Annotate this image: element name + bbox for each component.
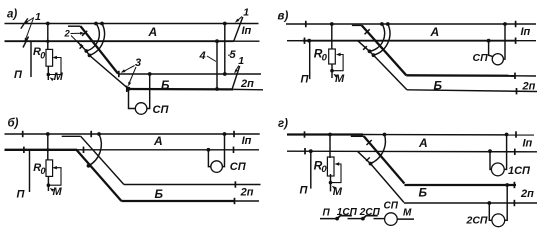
node arc top bbox=[97, 132, 101, 136]
rail A top bbox=[5, 133, 260, 135]
node feed crossing bbox=[46, 40, 49, 43]
svg-text:П: П bbox=[17, 189, 26, 201]
label Ip bbox=[242, 25, 252, 37]
wire 2SP right lead bbox=[504, 185, 507, 220]
label SP bbox=[473, 52, 489, 64]
wire to M bbox=[397, 218, 414, 220]
node feed crossing bbox=[46, 148, 49, 151]
turnout curve arc inner bbox=[86, 24, 99, 52]
rail A bottom thin continuation bbox=[234, 40, 260, 42]
svg-text:2п: 2п bbox=[520, 188, 534, 200]
svg-text:а): а) bbox=[7, 9, 17, 21]
branch rail thin diagonal bbox=[77, 41, 128, 88]
svg-text:2п: 2п bbox=[240, 187, 254, 199]
insulated joint 1 left bottom slash bbox=[23, 37, 29, 48]
node jumper4 bottom bbox=[215, 87, 219, 91]
rail B top thick bbox=[406, 74, 515, 77]
label A bbox=[430, 25, 440, 39]
label B bbox=[419, 186, 428, 200]
node arc top bbox=[383, 133, 387, 137]
insulated joint upper slash bbox=[367, 140, 372, 145]
node SP left on A bottom bbox=[487, 39, 491, 43]
branch rail thin diagonal bbox=[357, 151, 404, 202]
switch point rail bbox=[62, 135, 81, 137]
label 2p bbox=[522, 81, 536, 93]
insulated joint 1 left top slash bbox=[21, 18, 28, 28]
node at B bottom bend bbox=[127, 87, 131, 91]
svg-text:А: А bbox=[153, 134, 163, 148]
rheostat tap arrow hook bbox=[49, 168, 61, 186]
label B bbox=[155, 187, 164, 201]
rail A top bbox=[5, 23, 259, 25]
svg-text:2СП: 2СП bbox=[359, 207, 381, 218]
branch rail thin diagonal bbox=[81, 136, 124, 184]
joint tick B bottom right bbox=[516, 88, 518, 94]
svg-text:2: 2 bbox=[64, 29, 71, 40]
node jumper4 top bbox=[215, 39, 219, 43]
svg-text:в): в) bbox=[278, 11, 289, 23]
label M bbox=[53, 186, 63, 198]
svg-text:0: 0 bbox=[40, 50, 45, 60]
node jumper5 bottom bbox=[223, 72, 227, 76]
switch point rail bbox=[352, 24, 362, 26]
wire P lead bbox=[310, 151, 312, 188]
node jumper5 top bbox=[223, 22, 227, 26]
joint tick B top right bbox=[234, 181, 236, 187]
joint tick B top right end bbox=[514, 73, 516, 79]
node arc top 1 bbox=[380, 22, 384, 26]
svg-text:П: П bbox=[14, 69, 23, 81]
svg-text:А: А bbox=[418, 136, 428, 150]
rheostat tap arrow hook bbox=[331, 164, 341, 183]
switch point rail bbox=[68, 25, 81, 27]
node contact 1SP bbox=[335, 217, 339, 221]
wire feed bbox=[329, 135, 331, 159]
joint tick bottom left bbox=[304, 148, 306, 154]
node arc top 2 bbox=[386, 22, 390, 26]
node 2SP right on B top bbox=[505, 183, 509, 187]
branch rail thick diagonal bbox=[81, 26, 119, 73]
wire SP right lead bbox=[222, 134, 224, 167]
leader 4 bbox=[207, 56, 216, 62]
label 2p bbox=[520, 188, 534, 200]
switch point rail bbox=[351, 135, 364, 137]
insulated joint 3 tick at B top bend bbox=[118, 71, 120, 77]
label B bbox=[434, 79, 443, 93]
joint tick A bottom right end bbox=[514, 149, 516, 155]
insulated joint 3 tick at B bottom bend bbox=[126, 86, 128, 92]
node 2SP left on B bottom bbox=[487, 201, 491, 205]
wire SP left lead bbox=[489, 41, 494, 57]
label P bbox=[17, 189, 26, 201]
relay SP circle bbox=[492, 54, 503, 65]
svg-text:0: 0 bbox=[321, 164, 327, 175]
rail A bottom thick segment bbox=[5, 149, 78, 151]
svg-text:А: А bbox=[430, 25, 440, 39]
relay SP circle bbox=[211, 161, 223, 173]
svg-text:2СП: 2СП bbox=[466, 215, 488, 227]
label a) bbox=[7, 9, 17, 21]
label 2p bbox=[240, 187, 254, 199]
insulated joint tick on A top before arc bbox=[90, 131, 92, 137]
resistor R0 bbox=[327, 157, 334, 176]
rail A top thick segment bbox=[287, 133, 363, 135]
rail B top thin continuation bbox=[515, 75, 536, 77]
wire 1SP left lead bbox=[490, 151, 492, 169]
relay SP circle bbox=[135, 103, 147, 115]
rail A top thin segment bbox=[362, 134, 534, 136]
joint tick on A bottom after bend bbox=[83, 147, 85, 153]
rail B top bbox=[118, 73, 261, 75]
label 2p bbox=[240, 78, 254, 90]
label 4 bbox=[199, 50, 206, 62]
label P bbox=[14, 69, 23, 81]
wire to relay coil bbox=[374, 218, 385, 220]
node arc top 1 bbox=[94, 22, 98, 26]
jumper wire 5 bbox=[224, 24, 226, 75]
label M bbox=[54, 71, 64, 83]
svg-text:П: П bbox=[323, 207, 331, 218]
rail B bottom thick bbox=[121, 200, 234, 202]
joint tick bottom left bbox=[23, 147, 25, 153]
joint tick bottom left bbox=[304, 38, 306, 44]
label 1 right A bbox=[243, 7, 249, 19]
turnout curve arc outer bbox=[374, 24, 390, 55]
svg-text:М: М bbox=[53, 186, 63, 198]
svg-text:г): г) bbox=[278, 118, 288, 130]
node arc bottom 1 bbox=[84, 49, 88, 53]
svg-text:1СП: 1СП bbox=[337, 207, 358, 218]
turnout curve arc bbox=[371, 135, 386, 164]
svg-text:Iп: Iп bbox=[521, 26, 531, 38]
label P bbox=[300, 185, 309, 197]
rail A bottom bbox=[287, 150, 537, 153]
label Ip bbox=[521, 26, 531, 38]
label 2SP bbox=[466, 215, 488, 227]
wire relay SP right lead bbox=[147, 74, 150, 109]
label A bbox=[153, 134, 163, 148]
node P on A bottom bbox=[307, 39, 311, 43]
svg-text:4: 4 bbox=[199, 50, 206, 62]
rail B top thick bbox=[404, 184, 516, 186]
resistor R0 bbox=[46, 49, 53, 66]
svg-text:Б: Б bbox=[434, 79, 443, 93]
node 1SP right on A top bbox=[505, 133, 509, 137]
rail A bottom thin segment bbox=[516, 40, 536, 42]
svg-text:2п: 2п bbox=[522, 81, 536, 93]
wire below R0 bbox=[330, 174, 332, 191]
svg-text:0: 0 bbox=[41, 166, 46, 176]
joint tick A top right bbox=[515, 131, 517, 137]
leader 5 bbox=[228, 54, 231, 56]
wire P lead bbox=[309, 41, 311, 79]
rail B bottom thick bbox=[128, 88, 233, 91]
rail B bottom bbox=[407, 90, 537, 92]
insulated joint 2 upper slash bbox=[82, 31, 87, 36]
branch rail thick diagonal bbox=[362, 25, 407, 75]
rail A bottom bbox=[5, 40, 234, 42]
wire below R0 bbox=[47, 176, 49, 191]
rheostat tap arrow hook bbox=[48, 58, 61, 75]
svg-text:Б: Б bbox=[161, 78, 170, 92]
svg-text:б): б) bbox=[8, 118, 19, 130]
label 1SP bbox=[508, 165, 531, 177]
node arc top 2 bbox=[100, 22, 104, 26]
joint tick top left bbox=[304, 131, 306, 137]
svg-text:П: П bbox=[300, 185, 309, 197]
label P terminal bbox=[323, 207, 331, 218]
leader 3 to bottom joint bbox=[129, 67, 136, 84]
wire relay SP left lead bbox=[129, 89, 136, 109]
label Ip bbox=[242, 135, 252, 147]
joint tick A bottom right end bbox=[515, 38, 517, 44]
joint tick B top right end bbox=[513, 182, 515, 188]
label SP bbox=[230, 161, 247, 173]
node M junction bbox=[47, 183, 51, 187]
svg-text:СП: СП bbox=[473, 52, 489, 64]
leader to joint bbox=[238, 17, 243, 21]
wire 1SP right lead bbox=[504, 135, 507, 170]
node on B top rail bbox=[148, 72, 152, 76]
joint tick B bottom right end bbox=[234, 198, 236, 204]
svg-text:СП: СП bbox=[384, 201, 399, 212]
label 1SP contact bbox=[337, 207, 358, 218]
resistor R0 bbox=[329, 49, 336, 64]
node arc bottom 2 bbox=[88, 54, 92, 58]
relay 2SP circle bbox=[492, 214, 505, 227]
label M bbox=[333, 186, 343, 198]
rail B bottom thin continuation bbox=[235, 200, 260, 202]
rail B bottom bbox=[404, 202, 537, 204]
joint tick B bottom right bbox=[513, 200, 515, 206]
label 3 bbox=[135, 57, 141, 69]
svg-text:1СП: 1СП bbox=[508, 165, 531, 177]
svg-text:А: А bbox=[148, 25, 158, 39]
label Ip bbox=[523, 137, 533, 149]
leader 2 to lower joint bbox=[71, 36, 82, 47]
wire 2SP left lead bbox=[489, 203, 492, 220]
rail A bottom thick segment bbox=[302, 40, 515, 42]
node M junction bbox=[329, 181, 333, 185]
wire between contacts bbox=[348, 218, 363, 220]
insulated joint upper slash bbox=[365, 29, 370, 34]
branch rail thin diagonal bbox=[358, 41, 407, 90]
svg-text:П: П bbox=[301, 74, 310, 86]
contact 1SP bar bbox=[337, 216, 352, 219]
label SP bbox=[153, 104, 170, 116]
label v) bbox=[278, 11, 289, 23]
turnout curve arc inner bbox=[370, 24, 385, 52]
leader 1 to top joint bbox=[25, 18, 34, 24]
wire from P bbox=[320, 218, 337, 220]
label 1 right B bbox=[238, 55, 244, 67]
node arc bottom 1 bbox=[368, 49, 372, 53]
svg-text:Б: Б bbox=[419, 186, 428, 200]
insulated joint 2 lower slash bbox=[80, 45, 83, 48]
contact 2SP bar bbox=[363, 216, 378, 219]
wire SP right lead bbox=[503, 24, 505, 59]
branch rail thick diagonal bbox=[364, 136, 405, 183]
rheostat tap arrow hook bbox=[332, 55, 343, 71]
node arc bottom bbox=[87, 164, 91, 168]
svg-text:5: 5 bbox=[230, 49, 237, 61]
relay SP coil circle bbox=[385, 213, 398, 226]
label g) bbox=[278, 118, 288, 130]
leader 1 to bottom joint bbox=[25, 18, 34, 42]
node SP right on A top bbox=[223, 132, 227, 136]
label 2 bbox=[64, 29, 71, 40]
node 1SP left on A bottom bbox=[488, 149, 492, 153]
svg-text:1: 1 bbox=[238, 55, 244, 67]
insulated joint lower slash bbox=[366, 157, 370, 161]
svg-text:0: 0 bbox=[322, 53, 328, 64]
rail A bottom thin segment bbox=[76, 149, 259, 151]
joint tick A bottom right end bbox=[233, 147, 235, 153]
wire feed bbox=[47, 134, 49, 160]
node arc bottom bbox=[369, 162, 373, 166]
svg-text:СП: СП bbox=[230, 161, 247, 173]
node SP left on A bottom bbox=[207, 148, 211, 152]
wire below R0 bbox=[47, 66, 49, 80]
joint tick top left bbox=[305, 21, 307, 27]
node arc bottom 2 bbox=[372, 53, 376, 57]
joint tick A top right bbox=[515, 21, 517, 27]
wire SP left lead bbox=[208, 150, 210, 167]
node M junction bbox=[47, 73, 51, 77]
label A bbox=[148, 25, 158, 39]
svg-text:М: М bbox=[54, 71, 64, 83]
rail A top bbox=[286, 23, 536, 25]
leader to joint bbox=[236, 66, 239, 72]
rail A bottom thick segment bbox=[287, 40, 302, 42]
wire feed bbox=[331, 24, 333, 49]
label b) bbox=[8, 118, 19, 130]
svg-text:1: 1 bbox=[35, 11, 41, 23]
leader 3 to top joint bbox=[124, 66, 135, 72]
wire feed from top rail bbox=[47, 24, 49, 50]
svg-text:Iп: Iп bbox=[242, 135, 252, 147]
node feed bbox=[328, 133, 332, 137]
svg-text:2п: 2п bbox=[240, 78, 254, 90]
label M terminal bbox=[403, 208, 412, 219]
wire P lead bbox=[29, 150, 31, 192]
node contact 2SP bbox=[361, 217, 365, 221]
label 5 bbox=[230, 49, 237, 61]
insulated joint lower slash bbox=[363, 46, 367, 50]
wire P lead bbox=[30, 41, 32, 77]
node SP right on A top bbox=[503, 22, 507, 26]
svg-text:М: М bbox=[403, 208, 412, 219]
node feed bbox=[46, 132, 50, 136]
relay 1SP circle bbox=[491, 163, 504, 176]
resistor R0 bbox=[46, 160, 53, 177]
node M junction bbox=[330, 69, 334, 73]
turnout curve arc bbox=[89, 134, 102, 166]
leader 2 to upper joint bbox=[71, 32, 82, 34]
insulated joint 1 right A slash bbox=[234, 17, 243, 41]
rail B bottom thin continuation bbox=[233, 88, 263, 90]
wire below R0 bbox=[331, 64, 333, 78]
insulated joint 1 right B slash bbox=[232, 66, 240, 90]
label P bbox=[301, 74, 310, 86]
svg-text:СП: СП bbox=[153, 104, 170, 116]
label 2SP contact bbox=[359, 207, 381, 218]
rail B top bbox=[124, 184, 261, 186]
node feed bbox=[330, 22, 334, 26]
label 1 left bbox=[35, 11, 41, 23]
node feed on top rail bbox=[46, 22, 50, 26]
label SP coil bbox=[384, 201, 399, 212]
svg-text:Б: Б bbox=[155, 187, 164, 201]
turnout curve arc outer bbox=[90, 24, 105, 56]
svg-text:1: 1 bbox=[243, 7, 249, 19]
label A bbox=[418, 136, 428, 150]
joint tick top left bbox=[22, 131, 24, 137]
jumper wire 4 bbox=[216, 41, 218, 89]
joint tick A top right bbox=[233, 131, 235, 137]
branch rail thick diagonal bbox=[76, 150, 121, 201]
label M bbox=[335, 73, 345, 85]
svg-text:Iп: Iп bbox=[523, 137, 533, 149]
svg-text:Iп: Iп bbox=[242, 25, 252, 37]
node P on A bottom bbox=[309, 149, 313, 153]
label B bbox=[161, 78, 170, 92]
